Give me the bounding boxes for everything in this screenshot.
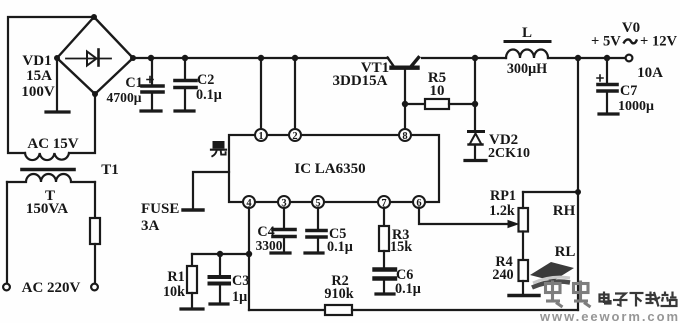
- svg-text:15A: 15A: [26, 68, 52, 84]
- capacitor C4: [283, 208, 285, 229]
- terminal V0 output: [626, 55, 633, 62]
- svg-text:C1: C1: [125, 75, 142, 91]
- capacitor C1 lead: [151, 58, 153, 84]
- svg-text:C7: C7: [620, 83, 637, 99]
- svg-text:0.1μ: 0.1μ: [395, 281, 421, 297]
- node collector rail: [472, 55, 478, 61]
- capacitor C3: [219, 254, 221, 275]
- svg-text:1μ: 1μ: [232, 289, 247, 305]
- svg-text:2CK10: 2CK10: [488, 146, 530, 161]
- node bridge right vertex: [130, 55, 136, 61]
- svg-text:4700μ: 4700μ: [107, 90, 142, 105]
- node R5 VD2 junction: [472, 101, 478, 107]
- bridge rectifier VD1 diamond: [57, 17, 133, 94]
- ground bar R1: [181, 307, 203, 310]
- svg-text:VD1: VD1: [22, 53, 51, 69]
- ground bar VD2: [465, 159, 486, 162]
- svg-text:10A: 10A: [637, 65, 663, 81]
- ground bar C4: [271, 251, 290, 254]
- resistor R3 15k: [383, 208, 385, 227]
- svg-text:150VA: 150VA: [26, 201, 68, 217]
- watermark text dian zi xia zai zhan: [600, 292, 677, 307]
- svg-text:3A: 3A: [141, 218, 160, 234]
- svg-text:0.1μ: 0.1μ: [196, 87, 222, 103]
- terminal AC 220V left: [3, 284, 10, 291]
- inductor L 300uH: [506, 50, 548, 59]
- ground bar C5: [305, 251, 323, 254]
- wire bottom rail left of R2: [249, 309, 325, 311]
- svg-text:L: L: [522, 25, 532, 41]
- wire pin4 down to bottom rail: [248, 208, 250, 311]
- capacitor C7 1000u: [606, 58, 608, 82]
- node pin4 branch: [246, 251, 252, 257]
- capacitor C2 plates: [175, 79, 196, 83]
- wire primary left leg: [6, 182, 8, 284]
- node pin2 rail: [292, 55, 298, 61]
- transformer T1 core: [22, 168, 74, 172]
- wire top rail from bridge right vertex: [133, 57, 388, 59]
- capacitor C2 lead: [184, 58, 186, 79]
- resistor R2 910k: [325, 305, 352, 315]
- wire bottom rail right of R2: [352, 309, 578, 311]
- svg-text:AC 220V: AC 220V: [22, 280, 81, 296]
- ground bar C2: [175, 109, 194, 112]
- svg-text:C3: C3: [232, 273, 249, 289]
- terminal AC 220V right: [91, 284, 98, 291]
- node right rail top: [575, 55, 581, 61]
- svg-text:AC 15V: AC 15V: [27, 136, 78, 152]
- capacitor C5: [317, 208, 319, 230]
- bridge rectifier VD1 inner diode: [66, 58, 111, 60]
- pin 5: [312, 196, 324, 208]
- capacitor C1 lower lead: [151, 94, 153, 110]
- ground bar C1: [141, 109, 161, 112]
- wire R5 left lead: [405, 103, 425, 105]
- capacitor C2 lower lead: [184, 89, 186, 109]
- wire case pin to ground: [193, 172, 229, 209]
- wire top-left loop from bridge top vertex down left side: [8, 17, 94, 153]
- wire bridge left vertex down: [56, 58, 58, 111]
- wire secondary right side to bridge bottom vertex: [69, 94, 95, 153]
- watermark graduation cap logo: [530, 262, 574, 288]
- svg-text:10k: 10k: [163, 284, 185, 300]
- wire rail inductor to output: [548, 57, 626, 59]
- transformer T1 secondary winding AC 15V: [25, 153, 69, 160]
- svg-text:www.eeworm.com: www.eeworm.com: [539, 309, 678, 323]
- node pin1 rail: [258, 55, 264, 61]
- svg-text:910k: 910k: [324, 286, 353, 302]
- ground bar C7: [599, 112, 618, 115]
- svg-text:+ 5V: + 5V: [591, 34, 621, 50]
- svg-text:RH: RH: [553, 203, 576, 219]
- svg-text:2: 2: [292, 131, 297, 142]
- wire branch pin4 to R1: [192, 253, 249, 255]
- ground bar C6: [376, 292, 394, 295]
- node bridge left vertex: [54, 55, 60, 61]
- resistor R4 240: [519, 260, 529, 281]
- svg-text:FUSE: FUSE: [141, 201, 179, 217]
- node C7 top: [604, 55, 610, 61]
- svg-text:3DD15A: 3DD15A: [333, 73, 388, 89]
- node RP1 right rail: [575, 189, 581, 195]
- watermark chong character 2: [574, 281, 591, 308]
- transformer T1 primary winding: [7, 174, 95, 182]
- pin 8: [399, 129, 411, 141]
- svg-text:1: 1: [258, 131, 263, 142]
- node base R5 junction: [402, 101, 408, 107]
- wire rail transistor to inductor: [422, 57, 506, 59]
- label liang character (case pin): [211, 142, 226, 157]
- wire RP1 to R4: [522, 232, 524, 261]
- svg-text:300μH: 300μH: [507, 61, 547, 77]
- svg-text:1.2k: 1.2k: [489, 203, 515, 219]
- svg-text:IC LA6350: IC LA6350: [294, 161, 365, 177]
- svg-text:3300: 3300: [256, 238, 283, 253]
- pin 4: [243, 196, 255, 208]
- ground bar R4: [509, 294, 539, 297]
- wire RP1 top to right rail: [523, 191, 578, 193]
- capacitor C1 plates: [142, 84, 163, 88]
- wire pin6 to wiper: [419, 208, 508, 225]
- ground bar C3: [210, 302, 228, 305]
- watermark chong character 1: [546, 281, 563, 308]
- svg-text:8: 8: [402, 131, 407, 142]
- ground bar at bridge left vertex: [46, 110, 69, 113]
- node R1 C3 branch: [217, 251, 223, 257]
- wire collector branch down: [474, 58, 476, 131]
- op-amp IC LA6350 box: [229, 135, 439, 202]
- pin 6: [413, 196, 425, 208]
- pin 3: [278, 196, 290, 208]
- wire right rail down: [577, 58, 579, 310]
- svg-text:240: 240: [492, 267, 513, 283]
- pin 1: [255, 129, 267, 141]
- svg-text:T1: T1: [101, 162, 119, 178]
- svg-text:1000μ: 1000μ: [618, 99, 654, 114]
- fuse on primary (box): [90, 218, 100, 244]
- svg-text:V0: V0: [622, 20, 640, 36]
- node bridge top vertex: [91, 14, 97, 20]
- inductor core bar: [505, 40, 550, 43]
- svg-text:100V: 100V: [21, 84, 55, 100]
- pin 2: [289, 129, 301, 141]
- zener diode VD2 2CK10: [469, 130, 484, 133]
- svg-text:R1: R1: [167, 269, 184, 285]
- svg-text:RL: RL: [555, 244, 576, 260]
- capacitor C1 plus sign: [147, 77, 153, 83]
- wire pin2 to top rail: [294, 58, 296, 130]
- wire pin1 to top rail: [260, 58, 262, 130]
- svg-text:RP1: RP1: [490, 188, 516, 204]
- svg-text:15k: 15k: [390, 239, 412, 255]
- wire R5 right lead: [449, 103, 475, 105]
- potentiometer RP1 1.2k: [519, 208, 529, 232]
- wire primary right leg lower: [94, 244, 96, 284]
- svg-text:C2: C2: [197, 72, 214, 88]
- node bridge bottom vertex: [92, 91, 98, 97]
- svg-text:+ 12V: + 12V: [640, 34, 678, 50]
- resistor R5: [425, 99, 449, 109]
- capacitor C7 plus sign: [597, 75, 603, 81]
- svg-text:10: 10: [430, 83, 445, 99]
- capacitor C6: [375, 267, 396, 271]
- node C1 top: [148, 55, 154, 61]
- svg-text:0.1μ: 0.1μ: [327, 239, 353, 255]
- wire VT1 base down to pin8: [404, 69, 406, 130]
- pin 7: [378, 196, 390, 208]
- transistor VT1 3DD15A: [388, 58, 394, 67]
- wire primary right leg upper: [94, 182, 96, 218]
- ground bar case: [183, 208, 203, 211]
- resistor R1 10k: [191, 254, 193, 266]
- node C2 top: [182, 55, 188, 61]
- wiper arrow of RP1: [508, 221, 518, 228]
